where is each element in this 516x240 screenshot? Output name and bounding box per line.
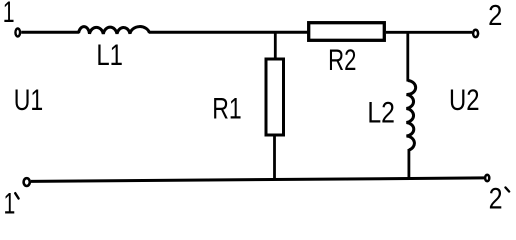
wire: R1 stub from top wire down to R1 box [274,32,277,59]
label 2` (bottom-right port) [489,182,503,215]
terminal 1` (bottom-left port circle) [24,178,30,186]
svg-text:1: 1 [3,0,15,29]
label R1 [212,92,241,125]
svg-text:L1: L1 [96,39,123,72]
resistor R1 (vertical box) [266,59,284,135]
wire: R1 box down to bottom wire [273,135,276,180]
wire: L2 stub from top wire down to coil [406,31,409,82]
svg-text:2: 2 [489,182,503,215]
label U2 (output voltage) [449,84,480,117]
terminal 2` (bottom-right port circle) [485,175,489,182]
label R2 [328,43,356,77]
svg-text:U2: U2 [449,84,480,117]
terminal 1 (top-left port circle) [15,29,20,37]
label 1 (top-left port) [3,0,15,29]
label L2 [367,95,395,129]
label U1 (input voltage) [14,83,43,116]
wire top-left: terminal 1 to L1 [21,31,79,34]
wire: L2 coil down to bottom wire [407,149,410,179]
inductor L2 (vertical coil, bumps to the right) [406,81,415,151]
svg-text:U1: U1 [14,83,43,116]
inductor L1 [79,27,150,34]
svg-text:R1: R1 [212,92,241,125]
wire: L1 to R2 (junction with R1 at x=275) [149,31,308,34]
terminal 2 (top-right port circle) [473,30,478,37]
svg-text:R2: R2 [328,43,356,77]
label 2 (top-right port) [488,0,502,31]
wire: R2 to terminal 2 (junction with L2 at x=408) [386,31,472,34]
bottom wire: terminal 1` to terminal 2` [31,178,484,182]
svg-text:2: 2 [488,0,502,31]
resistor R2 (horizontal box) [309,23,385,41]
svg-text:1: 1 [3,188,15,220]
svg-text:L2: L2 [367,95,395,129]
label L1 [96,39,123,72]
label 1` (bottom-left port) [3,188,15,220]
